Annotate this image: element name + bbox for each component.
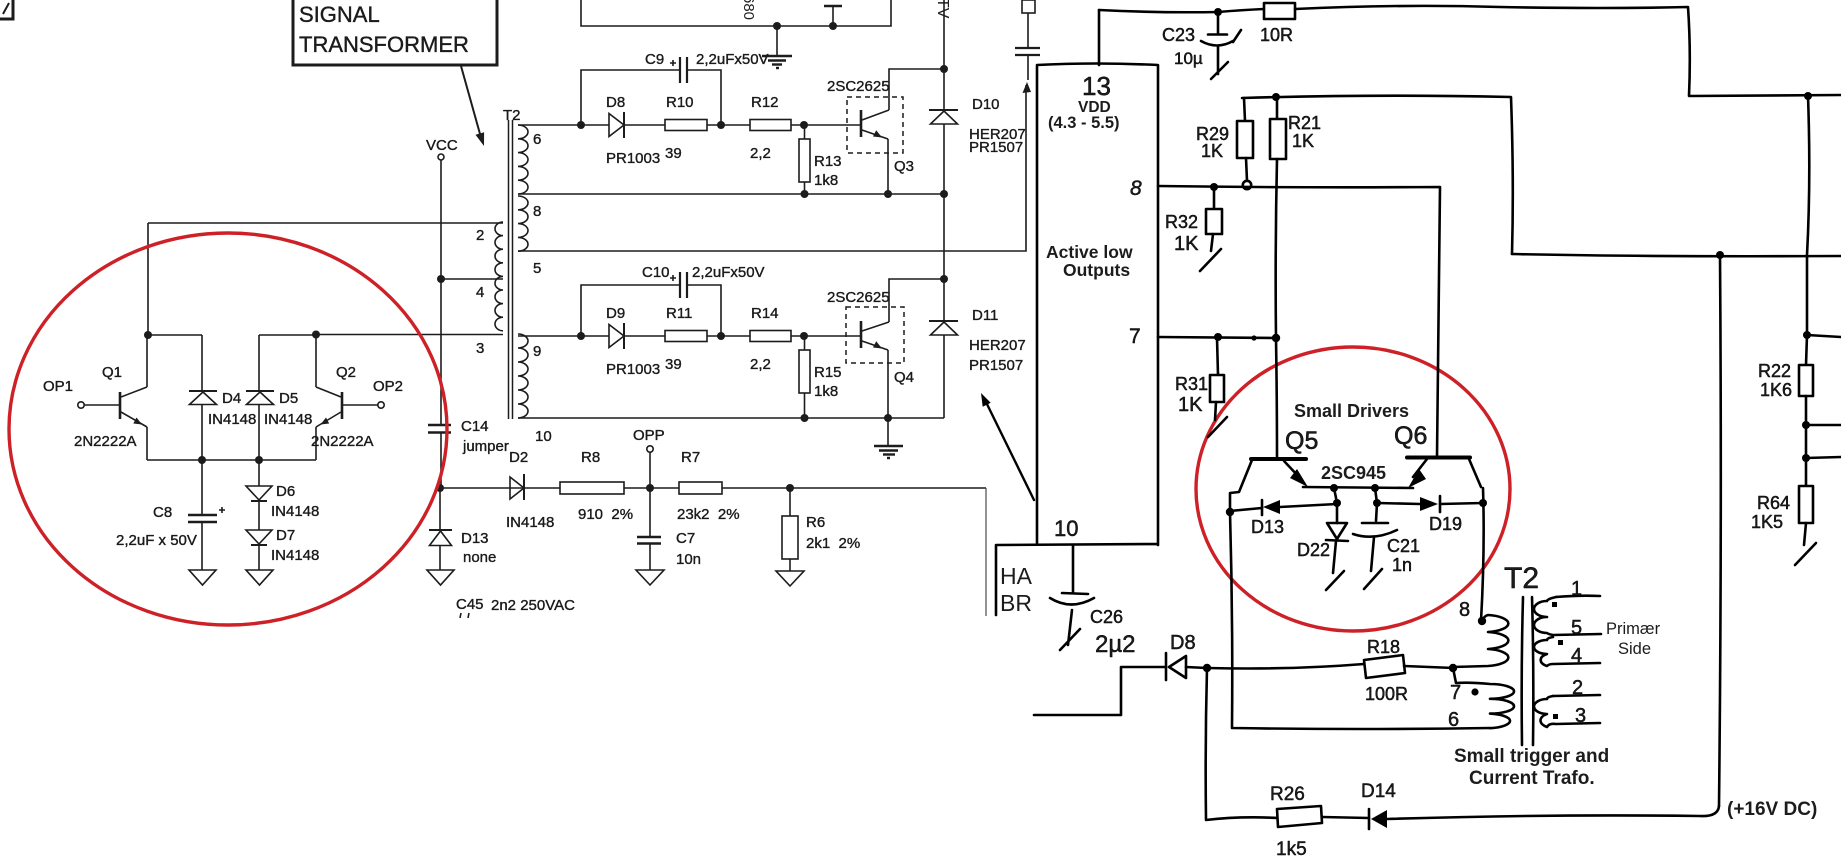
svg-text:HA: HA [1000,563,1033,589]
diode D2 [510,477,524,499]
svg-text:39: 39 [665,356,682,373]
svg-text:D14: D14 [1361,781,1396,802]
resistor R13 [804,125,806,139]
svg-text:Outputs: Outputs [1063,260,1130,280]
right rail to T2 pin8 [1481,488,1484,621]
svg-text:R31: R31 [1175,374,1208,394]
svg-text:IN4148: IN4148 [506,514,554,531]
svg-text:39: 39 [665,145,682,162]
svg-text:2,2: 2,2 [750,145,771,162]
node on 680 box [773,22,781,30]
svg-text:(+16V DC): (+16V DC) [1727,799,1817,820]
svg-text:5: 5 [1571,617,1582,639]
resistor R22 [1806,335,1807,365]
svg-text:2N2222A: 2N2222A [74,433,137,450]
svg-text:680: 680 [740,0,757,20]
T2 primary winding 1-5-4 [1556,596,1600,597]
svg-text:R32: R32 [1165,212,1198,232]
svg-text:R15: R15 [814,364,842,381]
ground below D7 [246,570,273,585]
svg-text:D7: D7 [276,527,295,544]
svg-text:D11: D11 [972,307,998,324]
node R12/R13 [800,121,808,129]
component fragment top at x1028 [1022,0,1035,13]
wire 10R to right corner [1295,6,1841,96]
diode D19 [1377,503,1420,504]
svg-text:1K6: 1K6 [1760,380,1792,400]
capacitor C26 [1072,545,1075,592]
capacitor C7 [649,488,651,536]
wire node to D4 [148,334,202,336]
ground below y418 wire [887,418,889,446]
svg-text:2N2222A: 2N2222A [311,433,374,450]
svg-text:10n: 10n [676,551,701,568]
corner box fragment top-left [0,0,13,19]
resistor R21 [1272,93,1280,101]
svg-text:D5: D5 [279,390,298,407]
red circle right [1196,347,1510,631]
svg-text:(4.3 - 5.5): (4.3 - 5.5) [1048,114,1120,132]
svg-text:C14: C14 [461,418,489,435]
resistor 10R [1264,3,1295,19]
ground below D13 [427,570,454,585]
capacitor C10 with loop wires [577,332,585,340]
transistor Q5 [1251,457,1306,461]
annotation arrow to T2 windings [984,398,1034,500]
capacitor C14 [428,424,451,426]
svg-text:Q5: Q5 [1285,427,1318,455]
wire Q1 collector drop [147,223,149,335]
svg-text:R14: R14 [751,305,779,322]
transistor Q1 [119,392,122,419]
wire node to R18 [1207,664,1364,669]
svg-text:8: 8 [1130,177,1142,200]
svg-text:3: 3 [476,340,484,357]
svg-text:C8: C8 [153,504,172,521]
stub to edge at 336 [1807,335,1841,337]
diode D11 on rail [940,275,948,283]
svg-text:IN4148: IN4148 [264,411,312,428]
svg-text:C21: C21 [1387,536,1420,556]
ground below 680 box [776,26,778,55]
svg-text:Active low: Active low [1046,242,1133,262]
T2 secondary winding 8-7 [1478,617,1486,625]
wire D8 anode to left [1034,667,1166,715]
IC outline box 13/VDD [996,64,1158,546]
svg-text:Side: Side [1618,640,1651,658]
svg-text:2SC2625: 2SC2625 [827,289,890,306]
svg-text:8: 8 [1459,599,1470,621]
stub to D13/D22 node [1334,488,1337,503]
wire D14 to +16V rail [1387,806,1719,819]
diode D6 [258,460,260,486]
diode D5 [258,335,260,391]
resistor R29 [1244,98,1245,121]
svg-text:3: 3 [1575,705,1586,727]
svg-text:IN4148: IN4148 [271,503,319,520]
+16V DC rail [1719,255,1721,806]
svg-text:C23: C23 [1162,25,1195,45]
transistor Q2 [341,392,344,419]
diode D8 [609,114,624,137]
svg-text:D22: D22 [1297,540,1330,560]
svg-text:23k2 2%: 23k2 2% [677,506,740,523]
svg-text:1k8: 1k8 [814,172,838,189]
resistor R18 [1364,655,1405,678]
resistor R10 [665,120,707,131]
svg-text:D19: D19 [1429,514,1462,534]
svg-text:HER207: HER207 [969,337,1026,354]
svg-text:C9: C9 [645,51,664,68]
svg-text:6: 6 [1448,709,1459,731]
svg-text:1k5: 1k5 [1276,839,1307,857]
resistor R6 [786,484,794,492]
svg-text:2SC2625: 2SC2625 [827,78,890,95]
svg-text:PR1003: PR1003 [606,150,660,167]
svg-text:6: 6 [533,131,541,148]
svg-text:R22: R22 [1758,361,1791,381]
svg-text:Q6: Q6 [1394,422,1427,450]
svg-text:13: 13 [1082,71,1111,101]
wire winding8 row y251 to top capacitor [518,85,1026,251]
wire y255 long [1512,254,1841,256]
resistor R7 [679,482,722,494]
svg-text:IN4148: IN4148 [271,547,319,564]
svg-text:1K5: 1K5 [1751,512,1783,532]
svg-text:2,2uF x 50V: 2,2uF x 50V [116,532,197,549]
svg-text:Q4: Q4 [894,369,914,386]
diode D14 [1368,809,1371,829]
svg-text:R7: R7 [681,449,700,466]
HA BR box [995,546,998,615]
node and stub y458 [1805,425,1808,458]
svg-text:IN4148: IN4148 [208,411,256,428]
svg-text:Primær: Primær [1606,620,1661,638]
svg-text:R6: R6 [806,514,825,531]
svg-text:5: 5 [533,260,541,277]
diode D13 [439,488,441,530]
ground below C8 [189,570,216,585]
svg-text:R8: R8 [581,449,600,466]
svg-text:1: 1 [1571,578,1582,600]
resistor R11 [665,331,707,342]
svg-text:R13: R13 [814,153,842,170]
stub to C21/D19 node [1375,488,1377,503]
wire VCC down to C14 [440,160,442,424]
diode D13 [1230,508,1262,511]
emitter rail 2SC945 [1303,487,1413,488]
svg-text:Current Trafo.: Current Trafo. [1469,768,1595,789]
capacitor C23 [1217,12,1220,33]
capacitor C21 [1376,503,1377,521]
transistor Q6 [1407,456,1470,460]
svg-text:2µ2: 2µ2 [1095,631,1136,658]
svg-text:D2: D2 [509,449,528,466]
transistor Q3 2SC2625 [847,97,903,153]
svg-text:10: 10 [1054,516,1078,541]
arrow from label box to transformer [461,66,480,134]
svg-text:7: 7 [1129,325,1141,348]
svg-text:2k1 2%: 2k1 2% [806,535,860,552]
svg-text:C10: C10 [642,264,670,281]
wire R26/D14 row [1206,817,1278,820]
svg-text:1K: 1K [1178,394,1203,416]
wire D8 to node [1186,667,1207,668]
svg-text:TV: TV [934,0,951,19]
T2 core lines [1522,597,1523,745]
svg-text:none: none [463,549,496,566]
resistor R15 [804,336,806,350]
svg-text:OPP: OPP [633,427,665,444]
ground below R6 [776,571,804,586]
svg-text:2SC945: 2SC945 [1321,463,1386,483]
T2 primary winding 2-3 [1534,696,1600,727]
svg-text:2: 2 [476,227,484,244]
transistor Q4 2SC2625 [846,307,904,363]
resistor R8 [560,482,624,494]
svg-text:Q1: Q1 [102,364,122,381]
T2 winding 8 [518,196,528,251]
svg-text:R21: R21 [1288,113,1321,133]
svg-text:TRANSFORMER: TRANSFORMER [299,32,469,57]
svg-text:1n: 1n [1392,555,1412,575]
svg-text:10: 10 [535,428,552,445]
svg-text:VCC: VCC [426,137,458,154]
svg-text:D4: D4 [222,390,241,407]
node Q2 collector [312,331,320,339]
supply wire y97 from R29/R21 [1242,96,1513,254]
svg-text:D6: D6 [276,483,295,500]
svg-text:R12: R12 [751,94,779,111]
right rail down to R22/R64 [1807,96,1809,334]
wire winding9 row y336 [518,335,861,337]
svg-text:R64: R64 [1757,493,1790,513]
wire node down to R26 row [1206,668,1207,819]
node at C14/D2 [436,484,444,492]
svg-text:R18: R18 [1367,637,1400,657]
svg-text:D8: D8 [1170,632,1196,654]
svg-text:7: 7 [1450,682,1461,704]
SIGNAL TRANSFORMER label box [293,0,497,65]
svg-text:4: 4 [1571,645,1582,667]
svg-text:Q2: Q2 [336,364,356,381]
svg-text:R10: R10 [666,94,694,111]
svg-text:Small trigger and: Small trigger and [1454,746,1609,767]
resistor R32 [1213,187,1216,209]
svg-text:2: 2 [1572,677,1583,699]
diode D10 on rail [940,65,948,73]
svg-text:T2: T2 [1504,562,1539,595]
svg-text:4: 4 [476,284,484,301]
svg-text:C45: C45 [456,596,484,613]
svg-text:Q3: Q3 [894,158,914,175]
svg-text:SIGNAL: SIGNAL [299,2,380,27]
svg-text:1K: 1K [1174,233,1199,255]
capacitor C9 with loop wires [577,121,585,129]
wire emitter bottom row [147,459,316,461]
svg-text:BR: BR [1000,590,1032,616]
svg-text:R26: R26 [1270,784,1305,805]
svg-text:PR1507: PR1507 [969,139,1023,156]
svg-text:100R: 100R [1365,684,1408,704]
resistor R64 [1805,458,1808,486]
top box with 680 [581,0,891,26]
svg-text:R11: R11 [666,305,692,322]
svg-text:jumper: jumper [462,438,509,455]
diode D4 [201,335,203,391]
node and stub y425 [1802,421,1810,429]
svg-text:PR1507: PR1507 [969,357,1023,374]
wire winding6 row [518,124,861,126]
resistor R14 [750,331,791,342]
wire emitter row y194 [518,193,944,195]
resistor R26 [1277,806,1322,827]
svg-text:C26: C26 [1090,607,1123,627]
svg-text:D8: D8 [606,94,625,111]
pin 7 wire [1158,337,1276,338]
svg-text:9: 9 [533,343,541,360]
T2 secondary winding 7-6 [1453,668,1514,728]
svg-text:2,2uFx50V: 2,2uFx50V [692,264,765,281]
svg-text:2,2uFx50V: 2,2uFx50V [696,51,769,68]
svg-text:2,2: 2,2 [750,356,771,373]
T2 winding 6 [518,125,528,194]
diode D7 [258,501,260,530]
svg-text:1k8: 1k8 [814,383,838,400]
svg-text:D9: D9 [606,305,625,322]
diode D22 [1336,503,1339,523]
capacitor fragment on 680 box [829,22,837,30]
svg-text:D13: D13 [461,530,489,547]
svg-text:OP1: OP1 [43,378,73,395]
svg-text:1K: 1K [1292,131,1314,151]
svg-text:PR1003: PR1003 [606,361,660,378]
svg-text:C7: C7 [676,530,695,547]
wire bottom row y418 [518,417,944,419]
svg-text:10µ: 10µ [1174,49,1203,68]
left rail down to winding6 [1230,512,1490,729]
resistor R12 [750,120,791,131]
capacitor C8 [201,460,203,514]
svg-text:OP2: OP2 [373,378,403,395]
svg-text:10R: 10R [1260,25,1293,45]
svg-text:2n2 250VAC: 2n2 250VAC [491,597,575,614]
svg-text:1K: 1K [1201,141,1223,161]
pin 13 wire [1098,10,1101,65]
pin 8 wire [1158,186,1440,456]
svg-text:Small Drivers: Small Drivers [1294,401,1409,421]
svg-text:8: 8 [533,203,541,220]
diode D8 [1165,653,1168,680]
wire main horizontal D2/R8/R7 row [440,487,986,489]
T2 winding 9 [518,334,528,418]
top supply wire [1099,9,1264,12]
ground below C7 [636,570,664,585]
wire D5 top to Q2 collector [259,334,316,336]
node R14/R15 [800,332,808,340]
wire VCC tap to winding junction [441,278,503,280]
svg-text:D13: D13 [1251,517,1284,537]
T2 left winding 2/4 [495,222,503,331]
wire winding3 row [316,334,503,336]
svg-text:D10: D10 [972,96,1000,113]
wire C14 to node [440,433,442,488]
wire top winding2 [148,222,503,224]
node Q5 base / D13 [1226,508,1234,516]
resistor R31 [1217,338,1218,375]
diode D9 [609,325,624,348]
svg-text:910 2%: 910 2% [578,506,633,523]
red ellipse left [9,233,447,625]
